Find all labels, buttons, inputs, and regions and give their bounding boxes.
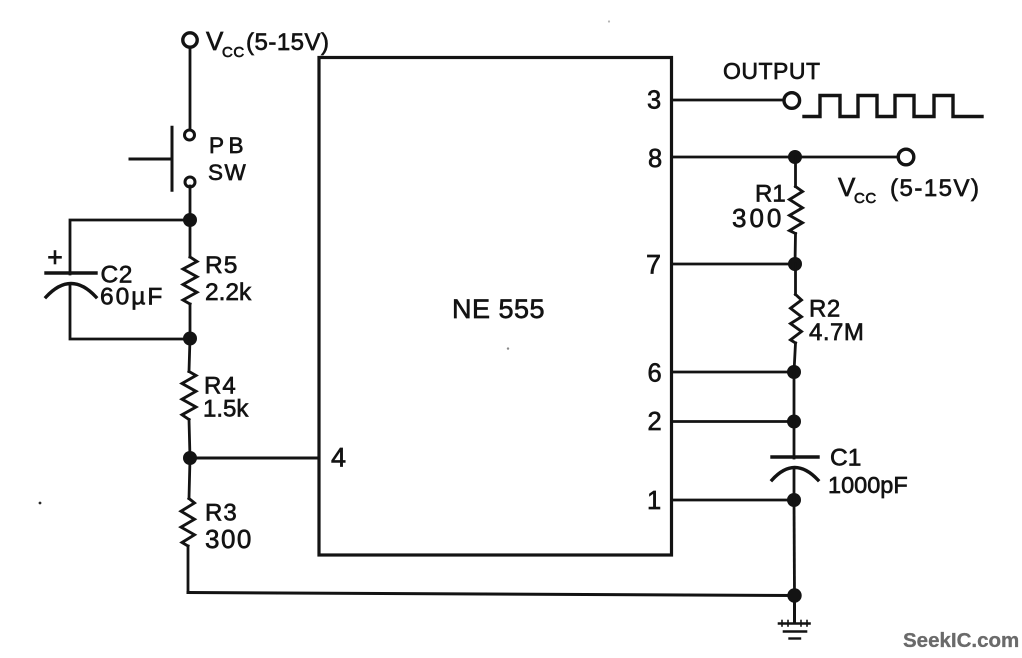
svg-text:R5: R5 [205, 252, 238, 279]
wire Vcc terminal to switch [189, 48, 192, 129]
svg-text:R3: R3 [205, 500, 238, 527]
wire node I to ground [793, 596, 796, 624]
wire bottom rail [188, 593, 795, 596]
label R3 300 [205, 500, 253, 555]
wire node G to C1 [793, 422, 796, 459]
waveform square wave [804, 96, 982, 117]
wire pin 3 to OUTPUT terminal [672, 99, 784, 102]
label C1 1000pF [828, 445, 908, 499]
node F junction (pin6 / R2) [787, 365, 801, 379]
resistor R3 [181, 458, 195, 593]
svg-text:SW: SW [208, 160, 247, 185]
svg-text:2.2k: 2.2k [205, 279, 252, 306]
svg-text:300: 300 [732, 203, 784, 233]
label R5 2.2k [205, 252, 252, 306]
wire pin 2 to node G [672, 420, 795, 423]
wire C1 through node H (vertical) [793, 468, 796, 500]
svg-text:(5-15V): (5-15V) [246, 29, 330, 56]
svg-text:NE 555: NE 555 [452, 294, 545, 324]
svg-text:CC: CC [854, 190, 877, 207]
label Vcc (5-15V) right [838, 172, 981, 207]
svg-text:6: 6 [648, 360, 662, 388]
speck below NE 555 [507, 347, 509, 349]
label R4 1.5k [203, 373, 249, 423]
node G junction (pin2) [787, 415, 801, 429]
speck left of R3 [39, 502, 42, 505]
label Vcc (5-15V) top [206, 26, 330, 61]
resistor R1 [790, 157, 803, 264]
svg-text:CC: CC [222, 44, 245, 61]
svg-text:C1: C1 [830, 445, 861, 472]
wire pin 6 to node F [672, 371, 795, 374]
node I junction (bottom rail / ground) [787, 588, 801, 602]
svg-text:3: 3 [647, 87, 661, 115]
wire pin 7 to node E [672, 263, 796, 266]
capacitor C1 [772, 457, 818, 480]
svg-text:7: 7 [646, 250, 661, 280]
terminal Vcc right [898, 149, 914, 165]
pushbutton switch PB SW [130, 127, 195, 190]
svg-text:SeekIC.com: SeekIC.com [903, 629, 1019, 652]
label R1 300 [732, 181, 786, 234]
svg-text:60µF: 60µF [100, 284, 164, 311]
svg-text:4.7M: 4.7M [809, 319, 864, 346]
node A junction (switch / C2 / R5) [183, 213, 197, 227]
capacitor C2 polarity plus sign [50, 252, 61, 264]
IC U1 NE 555 box [319, 58, 672, 556]
svg-text:4: 4 [331, 443, 346, 473]
resistor R2 [791, 264, 802, 372]
wire pin 8 to Vcc terminal right [672, 156, 899, 159]
svg-text:1000pF: 1000pF [828, 472, 908, 498]
svg-text:8: 8 [648, 145, 662, 173]
resistor R5 [183, 226, 197, 338]
label C2 60uF [100, 262, 164, 311]
svg-text:1.5k: 1.5k [203, 396, 249, 423]
resistor R4 [182, 338, 196, 458]
terminal OUTPUT [784, 93, 800, 109]
wire node F to node G [793, 372, 796, 422]
wire node C to pin 4 [190, 457, 319, 460]
svg-text:300: 300 [205, 524, 253, 554]
node E junction (R1 / R2 / pin7) [788, 257, 802, 271]
node C junction (R4 / R3 / pin4) [183, 451, 197, 465]
svg-text:PB: PB [209, 133, 248, 158]
label R2 4.7M [809, 296, 864, 347]
ground [779, 621, 810, 639]
node B junction (R5 / R4 / C2) [183, 332, 197, 346]
wire node H to node I [793, 500, 796, 595]
label PB SW [208, 133, 248, 185]
capacitor C2 [46, 273, 96, 297]
node H junction (pin1 / C1) [787, 493, 801, 507]
svg-text:2: 2 [648, 408, 662, 436]
wire node A to C2 top lead [70, 220, 190, 274]
svg-text:1: 1 [647, 487, 661, 515]
wire switch to node A [189, 186, 192, 220]
wire pin 1 to node H [672, 499, 795, 502]
terminal Vcc top-left [183, 33, 197, 47]
svg-text:(5-15V): (5-15V) [890, 175, 981, 202]
svg-text:OUTPUT: OUTPUT [723, 58, 821, 84]
node D junction (pin8 / R1) [788, 150, 802, 164]
speck above box [608, 20, 610, 22]
wire C2 bottom lead to node B [70, 285, 190, 339]
